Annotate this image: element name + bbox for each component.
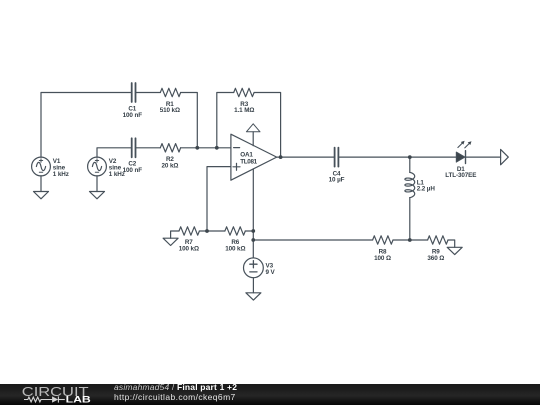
ground below V3 (252, 278, 254, 293)
wire R8 to node C (393, 239, 428, 241)
wire node B to R6 (207, 230, 225, 232)
ground at R7 (171, 231, 179, 238)
CircuitLab logo (0, 384, 110, 405)
svg-text:1.1 MΩ: 1.1 MΩ (234, 107, 254, 114)
wire C4 to D1 (338, 156, 456, 158)
svg-text:360 Ω: 360 Ω (427, 255, 444, 262)
op-amp V+ power arrow (246, 124, 260, 132)
inductor L1 (409, 157, 411, 172)
wire V- rail to R8 (253, 239, 372, 241)
wire plus input to R7/R6 node (207, 167, 231, 231)
node R6/V- junction dot (251, 229, 255, 233)
svg-text:100 kΩ: 100 kΩ (225, 246, 245, 253)
LED arrow 1 (458, 143, 462, 147)
svg-text:100 Ω: 100 Ω (374, 255, 391, 262)
node V-/long wire junction dot (251, 238, 255, 242)
wire C2 to R2 (136, 147, 161, 149)
op-amp plus sign (233, 163, 240, 170)
node B junction dot (205, 229, 209, 233)
wire op-amp V- down to V3 (252, 169, 254, 258)
resistor R6 (225, 227, 245, 235)
LED D1 (456, 152, 465, 162)
wire D1 to output port (466, 156, 501, 158)
resistor R1 (160, 88, 180, 96)
svg-text:TL081: TL081 (240, 158, 257, 165)
op-amp U1 triangle (231, 134, 277, 180)
node R3 tap junction dot (215, 146, 219, 150)
wire C1 to R1 (136, 92, 161, 94)
resistor R3 (234, 88, 254, 96)
wire V1 to C1 (41, 93, 132, 158)
svg-text:LTL-307EE: LTL-307EE (445, 172, 476, 179)
node output junction dot (279, 155, 283, 159)
voltage source V2 (88, 157, 107, 176)
wire R2 to op-amp inverting input (181, 147, 231, 149)
resistor R7 (179, 227, 199, 235)
svg-text:510 kΩ: 510 kΩ (160, 107, 180, 114)
wire R7 to node B (199, 230, 207, 232)
wire V2 to C2 (97, 148, 132, 157)
svg-text:20 kΩ: 20 kΩ (161, 162, 178, 169)
output port (501, 149, 509, 164)
svg-text:100 nF: 100 nF (123, 167, 143, 174)
resistor R9 (428, 236, 448, 244)
svg-text:9 V: 9 V (266, 269, 276, 276)
capacitor C1 (132, 83, 136, 102)
wire V+ stub (252, 132, 254, 146)
node A junction dot (195, 146, 199, 150)
resistor R8 (373, 236, 393, 244)
op-amp minus sign (234, 147, 240, 149)
capacitor C4 (335, 148, 339, 167)
resistor R2 (160, 144, 180, 152)
voltage source V1 (32, 157, 51, 176)
wire op-amp output (277, 156, 335, 158)
node L1/R9 junction dot (408, 238, 412, 242)
voltage source V3 (244, 258, 264, 278)
wire R1 to node A (181, 93, 198, 148)
svg-text:LAB: LAB (66, 395, 92, 405)
LED arrow 2 (465, 144, 469, 148)
ground at R9 (448, 240, 455, 247)
capacitor C2 (132, 138, 136, 157)
wire R6 to V- rail (245, 230, 253, 232)
ground below V2 (96, 176, 98, 192)
svg-text:100 kΩ: 100 kΩ (179, 246, 199, 253)
svg-text:10 µF: 10 µF (329, 177, 345, 184)
svg-text:2.2 µH: 2.2 µH (417, 186, 436, 193)
node C4-L1 junction dot (408, 155, 412, 159)
wire R3 left leg (217, 93, 234, 148)
svg-text:1 kHz: 1 kHz (53, 171, 69, 178)
svg-text:100 nF: 100 nF (123, 112, 143, 119)
wire R3 right leg (254, 93, 281, 158)
ground below V1 (40, 176, 42, 192)
